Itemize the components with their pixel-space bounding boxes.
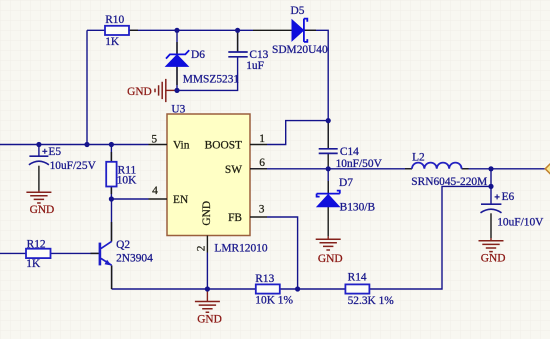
svg-text:SDM20U40: SDM20U40 [272, 44, 328, 56]
svg-text:D7: D7 [339, 177, 353, 189]
svg-text:10uF/10V: 10uF/10V [497, 217, 544, 229]
svg-text:10nF/50V: 10nF/50V [336, 158, 383, 170]
svg-text:10K 1%: 10K 1% [255, 294, 293, 306]
svg-text:SW: SW [225, 164, 242, 176]
svg-text:GND: GND [30, 204, 55, 216]
svg-text:E6: E6 [502, 191, 515, 203]
svg-text:B130/B: B130/B [340, 202, 376, 214]
svg-text:GND: GND [318, 253, 343, 265]
svg-text:6: 6 [259, 157, 265, 169]
svg-text:FB: FB [228, 212, 242, 224]
svg-text:E5: E5 [48, 146, 61, 158]
svg-text:L2: L2 [412, 151, 425, 163]
svg-text:BOOST: BOOST [205, 140, 242, 152]
svg-text:U3: U3 [171, 104, 185, 116]
svg-text:R10: R10 [105, 14, 124, 26]
svg-text:GND: GND [197, 313, 222, 325]
svg-text:1K: 1K [26, 258, 41, 270]
svg-text:GND: GND [201, 201, 213, 226]
svg-text:10K: 10K [117, 175, 137, 187]
svg-text:R12: R12 [27, 239, 46, 251]
svg-text:1: 1 [259, 133, 265, 145]
svg-text:4: 4 [152, 185, 158, 197]
svg-text:R13: R13 [255, 273, 274, 285]
svg-text:3: 3 [259, 203, 265, 215]
svg-text:5: 5 [151, 134, 157, 146]
svg-text:1K: 1K [105, 36, 120, 48]
svg-text:10uF/25V: 10uF/25V [50, 160, 97, 172]
svg-text:2: 2 [196, 245, 208, 251]
svg-text:D5: D5 [291, 5, 305, 17]
svg-text:Vin: Vin [173, 140, 190, 152]
svg-text:1uF: 1uF [246, 60, 264, 72]
svg-text:EN: EN [173, 194, 188, 206]
svg-text:D6: D6 [191, 49, 205, 61]
svg-text:LMR12010: LMR12010 [214, 243, 267, 255]
svg-text:R14: R14 [348, 272, 367, 284]
svg-text:C14: C14 [340, 146, 359, 158]
svg-text:52.3K 1%: 52.3K 1% [348, 295, 395, 307]
svg-text:2N3904: 2N3904 [116, 253, 153, 265]
svg-text:GND: GND [127, 86, 152, 98]
svg-text:GND: GND [481, 253, 506, 265]
svg-text:Q2: Q2 [116, 239, 130, 251]
svg-text:C13: C13 [249, 49, 268, 61]
svg-text:MMSZ5231: MMSZ5231 [183, 73, 240, 85]
svg-text:SRN6045-220M: SRN6045-220M [411, 176, 487, 188]
